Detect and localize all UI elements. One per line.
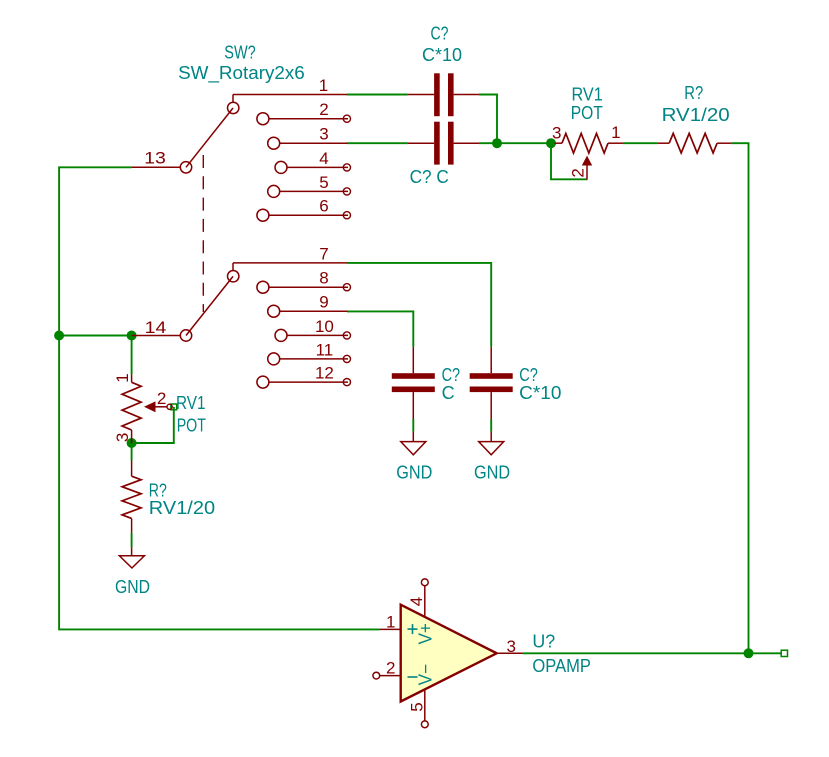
svg-text:R?: R? [684, 83, 703, 103]
svg-text:OPAMP: OPAMP [532, 656, 591, 676]
svg-text:2: 2 [386, 659, 395, 678]
svg-text:C?: C? [519, 365, 538, 385]
svg-text:POT: POT [571, 103, 603, 123]
svg-text:V−: V− [415, 664, 435, 686]
svg-text:1: 1 [319, 76, 328, 95]
svg-text:7: 7 [319, 245, 328, 264]
svg-text:3: 3 [552, 123, 561, 142]
svg-text:C?: C? [431, 24, 449, 44]
svg-text:1: 1 [611, 123, 620, 142]
svg-text:RV1/20: RV1/20 [662, 105, 730, 125]
svg-text:C? C: C? C [410, 167, 449, 187]
svg-text:RV1: RV1 [572, 84, 603, 104]
svg-text:2: 2 [319, 100, 328, 119]
svg-text:12: 12 [315, 364, 334, 383]
svg-text:10: 10 [315, 317, 334, 336]
svg-text:5: 5 [319, 173, 328, 192]
svg-text:RV1: RV1 [176, 393, 206, 413]
svg-text:GND: GND [115, 577, 150, 597]
svg-text:1: 1 [386, 613, 395, 632]
svg-text:4: 4 [319, 149, 328, 168]
svg-text:1: 1 [113, 373, 132, 382]
svg-text:11: 11 [316, 340, 334, 359]
svg-text:SW?: SW? [224, 43, 255, 63]
svg-text:GND: GND [474, 462, 510, 482]
svg-text:4: 4 [407, 597, 426, 606]
svg-text:2: 2 [157, 389, 166, 408]
svg-text:C*10: C*10 [422, 45, 462, 65]
svg-text:C*10: C*10 [519, 383, 561, 403]
svg-text:2: 2 [569, 168, 588, 177]
svg-text:6: 6 [319, 197, 328, 216]
svg-text:9: 9 [319, 293, 328, 312]
svg-text:13: 13 [144, 149, 166, 168]
svg-text:SW_Rotary2x6: SW_Rotary2x6 [178, 63, 305, 84]
svg-text:8: 8 [319, 269, 328, 288]
svg-text:14: 14 [145, 318, 167, 337]
svg-text:GND: GND [396, 462, 432, 482]
svg-text:U?: U? [532, 632, 555, 652]
svg-text:RV1/20: RV1/20 [149, 498, 215, 518]
svg-text:3: 3 [113, 433, 132, 442]
svg-text:5: 5 [408, 702, 427, 711]
svg-text:3: 3 [506, 637, 515, 656]
svg-text:3: 3 [319, 125, 328, 144]
svg-text:V+: V+ [415, 623, 435, 645]
svg-text:C: C [442, 383, 455, 403]
svg-text:POT: POT [177, 415, 206, 435]
svg-text:C?: C? [442, 365, 461, 385]
